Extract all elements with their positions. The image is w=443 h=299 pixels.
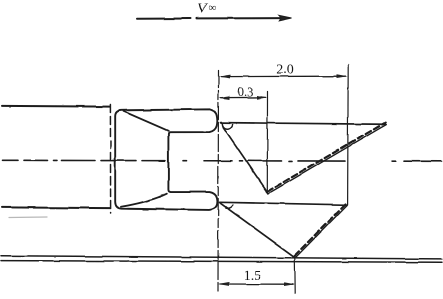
sting tube bottom line (2, 206, 110, 209)
svg-text:1.5: 1.5 (244, 269, 262, 284)
svg-text:V: V (198, 1, 209, 17)
vane top edge (221, 123, 387, 125)
shock line upper (thin) (268, 125, 386, 194)
extension line x=295 (294, 258, 296, 293)
svg-text:2.0: 2.0 (276, 63, 294, 78)
sting tube top line (2, 105, 110, 108)
collar lower taper line (121, 194, 167, 207)
dimension line 1.5 (218, 282, 295, 286)
svg-text:0.3: 0.3 (238, 85, 254, 99)
reflected triangle top edge (220, 202, 348, 205)
wall upper line (1, 256, 442, 259)
extension line x=267 (266, 92, 268, 193)
label V-infinity (198, 1, 217, 17)
dimension line 2.0 (219, 74, 348, 78)
shock line lower (hatched) (294, 204, 345, 256)
reflected triangle nose arc (226, 205, 233, 208)
centerline (dash-dot axis) (3, 160, 441, 161)
shock line upper (hatched) (267, 123, 385, 192)
shock line lower (thin) (296, 205, 347, 257)
flow arrow (137, 15, 292, 21)
dashed joint line (109, 105, 111, 214)
vane nose arc (222, 124, 232, 129)
extension line left (x=218) (217, 71, 220, 293)
collar body outline (115, 109, 217, 210)
wall lower line (1, 261, 442, 263)
dimension line 0.3 (219, 96, 267, 100)
reflected triangle left slant (220, 203, 295, 257)
vane leading slant (223, 127, 268, 193)
extension line x=348 (347, 65, 350, 205)
svg-text:∞: ∞ (209, 2, 217, 14)
scan artifact faint line (9, 216, 47, 219)
collar upper taper line (124, 111, 169, 131)
